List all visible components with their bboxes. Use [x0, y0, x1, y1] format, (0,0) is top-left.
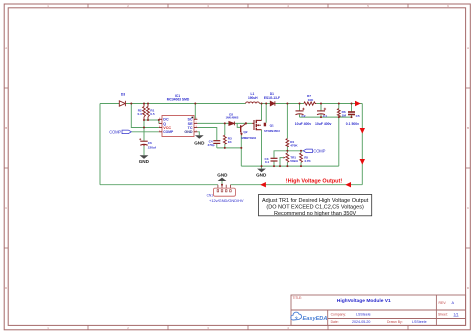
junction TR1 bottom on ground rail — [286, 165, 288, 167]
svg-text:4.7K: 4.7K — [304, 159, 311, 163]
wire feedback node — [274, 151, 303, 158]
wire C1 leads — [320, 104, 322, 118]
transistor Q1 label — [264, 124, 280, 134]
svg-text:D3: D3 — [121, 93, 125, 97]
svg-text:STN3N45K3: STN3N45K3 — [264, 129, 280, 133]
svg-text:50kΩ: 50kΩ — [290, 159, 298, 163]
junction D1 cathode / R4 top — [286, 103, 288, 105]
border row ticks right — [466, 88, 471, 248]
svg-text:TITLE:: TITLE: — [293, 296, 303, 300]
svg-text:0.3: 0.3 — [138, 112, 143, 116]
capacitor C2 label — [302, 114, 306, 118]
wire HV output vertical — [361, 104, 363, 185]
svg-text:0.5: 0.5 — [150, 112, 155, 116]
svg-text:EasyEDA: EasyEDA — [303, 316, 328, 322]
net arrow HV left 1 — [260, 182, 266, 187]
IC1 pin numbers — [159, 118, 198, 133]
net arrow HV right — [355, 101, 361, 106]
svg-text:LSSteele: LSSteele — [412, 320, 427, 324]
wire R6 leads — [338, 104, 340, 118]
junction R5 bottom on ground rail — [300, 165, 302, 167]
capacitor C2 value — [295, 122, 312, 126]
junction C1 bottom on return rail — [320, 116, 322, 118]
svg-text:C5: C5 — [356, 114, 360, 118]
net arrow HV down 1 — [360, 128, 365, 134]
diode D2 label — [226, 113, 239, 120]
diode D1 — [270, 101, 275, 106]
svg-text:MC34063 SMD: MC34063 SMD — [167, 98, 190, 102]
ground at IC1 GND pin — [194, 135, 205, 145]
diode D1 label — [264, 92, 280, 100]
junction SE wire / R3 top — [224, 122, 226, 124]
svg-text:COMP: COMP — [109, 129, 121, 134]
capacitor C1 value — [315, 122, 332, 126]
svg-text:C: C — [467, 206, 469, 210]
border column ticks bottom — [88, 325, 408, 329]
wire D2 to Q2 base jog — [237, 123, 240, 127]
junction C1 top on HV rail — [320, 103, 322, 105]
wire C6 branch — [143, 120, 145, 141]
CN1 pin stubs — [218, 185, 231, 188]
junction R4 bottom / TR1 top — [286, 150, 288, 152]
capacitor C2 — [296, 108, 305, 115]
potentiometer TR1 label — [290, 156, 298, 163]
EasyEDA logo — [291, 312, 328, 322]
capacitor C5 — [348, 112, 355, 115]
resistor R6 label — [342, 110, 347, 117]
junction R1 bottom IPK node — [147, 119, 149, 121]
wire C4/R3 bottom — [217, 144, 242, 148]
svg-text:220uf: 220uf — [148, 146, 157, 150]
svg-text:GND: GND — [256, 173, 267, 178]
wire Rsc to IPK/DC pins — [144, 119, 159, 123]
svg-text:Adjust TR1 for Desired High Vo: Adjust TR1 for Desired High Voltage Outp… — [262, 198, 369, 204]
resistor R4 — [286, 139, 289, 147]
border row ticks left — [4, 88, 8, 248]
wire SC pin to rail — [194, 104, 196, 120]
junction IPK/DC pin node — [158, 119, 160, 121]
svg-text:Q1: Q1 — [270, 124, 274, 128]
svg-text:470K: 470K — [290, 143, 298, 147]
svg-text:Company:: Company: — [331, 313, 347, 317]
wire Q2 emitter to ground rail — [240, 135, 242, 166]
IC1 designator label — [167, 94, 190, 102]
svg-text:10uF 400v: 10uF 400v — [295, 122, 312, 126]
resistor R5 — [300, 153, 303, 162]
capacitor C1 label — [323, 114, 327, 118]
svg-text:GND: GND — [184, 130, 193, 134]
wire C5 leads — [351, 104, 353, 118]
svg-text:2024-05-20: 2024-05-20 — [352, 320, 370, 324]
capacitor C5 value — [346, 122, 359, 126]
wire ground rail — [241, 165, 338, 167]
svg-text:0.1 500v: 0.1 500v — [346, 122, 359, 126]
junction R6 bottom / ground drop — [338, 116, 340, 118]
diode D2 — [229, 122, 235, 126]
wire R5 — [300, 151, 302, 166]
wire R4 from HV node — [286, 104, 288, 167]
wire GND pin of IC — [197, 132, 199, 135]
wire SE pin to D2 — [197, 122, 252, 124]
svg-text:ES1G-13-F: ES1G-13-F — [264, 96, 280, 100]
junction SC tie on rail — [194, 103, 196, 105]
junction Q2 collector / gate line — [245, 122, 247, 124]
potentiometer TR1 — [283, 153, 288, 162]
inductor L1 — [246, 102, 260, 104]
svg-text:(DO NOT EXCEED C1,C2,C5 Voltag: (DO NOT EXCEED C1,C2,C5 Voltages) — [266, 204, 364, 210]
note box — [259, 195, 372, 217]
net flag COMP right — [303, 148, 325, 153]
svg-text:+12v/GND/GND/HV: +12v/GND/GND/HV — [209, 198, 244, 203]
capacitor C3 label — [265, 157, 270, 164]
IC1 left pin stubs — [159, 119, 162, 132]
junction R2 top on rail — [143, 103, 145, 105]
IC1 pin names — [163, 118, 193, 135]
svg-text:Drawn By:: Drawn By: — [387, 320, 403, 324]
ground at CN1 — [217, 173, 228, 185]
ground below C6 — [139, 146, 150, 164]
svg-text:MMBT3904: MMBT3904 — [242, 136, 257, 140]
svg-text:GND: GND — [194, 141, 205, 146]
junction R5 top / COMP flag — [300, 150, 302, 152]
wire VCC branch — [131, 104, 159, 128]
resistor R7 label — [307, 94, 314, 102]
svg-text:C6: C6 — [148, 141, 152, 145]
border column ticks top — [88, 4, 408, 8]
svg-text:LSSteele: LSSteele — [356, 313, 371, 317]
capacitor C4 label — [207, 139, 214, 146]
capacitor C4 — [213, 141, 220, 144]
junction Q1 body tap on rail — [265, 103, 267, 105]
svg-text:D: D — [5, 286, 7, 290]
op-amp U1 : IC1 MC34063 box — [162, 116, 194, 137]
svg-text:10K: 10K — [308, 98, 314, 102]
junction TR1 wiper on ground rail — [279, 165, 281, 167]
junction C5 top on HV rail — [351, 103, 353, 105]
capacitor C6 label — [148, 141, 157, 150]
junction Q1 source on ground rail — [261, 165, 263, 167]
wire bottom +12V feed — [100, 184, 218, 186]
wire C3 bottom — [273, 161, 275, 166]
capacitor C6 — [139, 138, 148, 146]
diode D3 label — [121, 93, 125, 97]
svg-text:Date:: Date: — [331, 320, 339, 324]
connector CN1 — [214, 188, 236, 196]
svg-text:C: C — [5, 206, 7, 210]
junction C6 on VCC wire — [143, 127, 145, 129]
capacitor C5 label — [356, 114, 360, 118]
resistor R7 — [304, 102, 317, 105]
svg-text:A: A — [467, 46, 469, 50]
junction C2 top on HV rail — [299, 103, 301, 105]
resistor R1 — [147, 104, 150, 121]
svg-text:GND: GND — [217, 173, 228, 178]
junction C5 bottom on return rail — [351, 116, 353, 118]
net arrow HV down 2 — [360, 159, 365, 165]
svg-text:0.1: 0.1 — [265, 160, 270, 164]
capacitor C1 — [317, 108, 326, 115]
junction R3 bottom — [224, 147, 226, 149]
svg-text:470p: 470p — [207, 143, 214, 147]
net arrow HV left 2 — [345, 182, 351, 187]
svg-text:REV:: REV: — [439, 301, 447, 305]
ground at Q1 source rail — [256, 166, 267, 178]
svg-text:B: B — [5, 126, 7, 130]
title block — [291, 295, 466, 325]
svg-text:D: D — [467, 286, 469, 290]
svg-text:Sheet:: Sheet: — [438, 313, 448, 317]
IC1 right pin stubs — [194, 119, 197, 132]
wire HV output bottom — [230, 184, 362, 186]
wire COMP pin to flag — [131, 131, 159, 133]
svg-text:1/1: 1/1 — [454, 313, 459, 317]
resistor R3 — [223, 135, 226, 144]
svg-text:Q2: Q2 — [243, 130, 247, 134]
wire bottom plate rail — [300, 116, 352, 118]
junction L1/D1/Q1 drain node — [261, 103, 263, 105]
svg-text:!High Voltage Output!: !High Voltage Output! — [286, 178, 343, 184]
svg-text:10uF 400v: 10uF 400v — [315, 122, 332, 126]
diode D3 — [119, 101, 125, 106]
svg-text:CN1: CN1 — [207, 193, 214, 197]
junction VCC tap on +12V rail — [130, 103, 132, 105]
resistor R3 label — [228, 136, 233, 143]
wire left vertical +12V — [99, 104, 101, 185]
inductor L1 label — [248, 92, 258, 100]
junction CN1 GND pin — [221, 184, 223, 186]
svg-text:COMP: COMP — [163, 130, 174, 134]
svg-text:190uH: 190uH — [248, 96, 258, 100]
transistor Q2 — [240, 124, 246, 136]
transistor Q2 label — [242, 130, 257, 140]
svg-text:A: A — [5, 46, 7, 50]
transistor Q1 MOSFET — [252, 120, 266, 130]
wire TC pin to C4 — [197, 128, 216, 141]
wire +12V top rail — [100, 103, 362, 105]
resistor R4 label — [290, 140, 298, 147]
resistor R1 label — [150, 109, 155, 116]
resistor R5 label — [304, 156, 311, 163]
svg-text:C1: C1 — [323, 114, 327, 118]
svg-text:1N4148WS: 1N4148WS — [226, 116, 239, 119]
wire Q1 source to ground rail — [261, 130, 263, 166]
resistor R6 — [337, 109, 340, 117]
junction R2 bottom IPK node — [143, 119, 145, 121]
junction C3 bottom on ground rail — [273, 165, 275, 167]
svg-text:COMP: COMP — [313, 148, 325, 153]
capacitor C3 — [271, 158, 278, 161]
svg-text:B: B — [467, 126, 469, 130]
wire R3 branch — [224, 123, 226, 147]
svg-text:GND: GND — [139, 159, 150, 164]
junction R1 top on rail — [147, 103, 149, 105]
wire ground return drop — [338, 117, 340, 166]
svg-text:C2: C2 — [302, 114, 306, 118]
wire TR1 wiper — [280, 158, 283, 167]
wire Q1 drain to rail — [262, 104, 267, 123]
resistor R2 label — [138, 109, 143, 116]
wire C2 leads — [299, 104, 301, 118]
junction R6 top on HV rail — [338, 103, 340, 105]
svg-text:HighVoltage Module V1: HighVoltage Module V1 — [337, 298, 391, 304]
resistor R2 — [143, 104, 146, 121]
svg-text:1M: 1M — [342, 113, 347, 117]
junction Q2 emitter / C4-R3 line — [240, 147, 242, 149]
border row letters — [5, 46, 469, 290]
svg-text:Recommend no higher than 350V: Recommend no higher than 350V — [274, 211, 357, 217]
net flag COMP left — [109, 129, 131, 134]
